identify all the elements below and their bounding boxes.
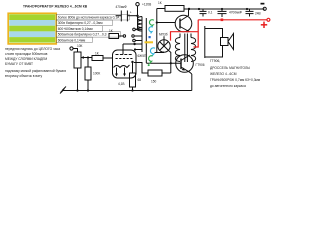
svg-text:до автогенного каркаса: до автогенного каркаса bbox=[210, 84, 246, 88]
svg-text:150: 150 bbox=[151, 80, 157, 84]
svg-text:ДРОССЕЛЬ МАГНИТОЛЫ: ДРОССЕЛЬ МАГНИТОЛЫ bbox=[210, 66, 250, 70]
svg-text:4700мкФ: 4700мкФ bbox=[229, 11, 243, 15]
svg-text:надломку мягкой рафинованной б: надломку мягкой рафинованной бумаги bbox=[5, 69, 66, 73]
svg-text:+: + bbox=[130, 11, 132, 15]
svg-text:ГРАНИ/500Р0Ж 0,7мм КЗ+0,3мм: ГРАНИ/500Р0Ж 0,7мм КЗ+0,3мм bbox=[210, 78, 261, 82]
svg-text:500витков бифилярно 0,27...0,3: 500витков бифилярно 0,27...0,3 bbox=[58, 33, 107, 37]
svg-text:ГТ906,: ГТ906, bbox=[210, 59, 220, 63]
svg-text:24В: 24В bbox=[255, 12, 261, 16]
svg-text:1К: 1К bbox=[109, 29, 113, 33]
svg-text:6Ж5П: 6Ж5П bbox=[138, 54, 147, 58]
svg-text:МЕЖДУ СЛОЯМИ КЛАДЕМ: МЕЖДУ СЛОЯМИ КЛАДЕМ bbox=[5, 57, 47, 61]
svg-text:МП3б: МП3б bbox=[159, 33, 168, 37]
svg-text:более 800в до исполнения карка: более 800в до исполнения каркаса 0,1А bbox=[58, 16, 120, 20]
svg-text:БУМАГУ ОТ 5МВТ: БУМАГУ ОТ 5МВТ bbox=[5, 62, 33, 66]
svg-text:4,1В: 4,1В bbox=[118, 82, 125, 86]
svg-text:передняя надпись до ЦЕЛОГО час: передняя надпись до ЦЕЛОГО часа bbox=[5, 47, 60, 51]
svg-text:10К: 10К bbox=[77, 44, 83, 48]
svg-text:слоев прокладки 500витков: слоев прокладки 500витков bbox=[5, 52, 48, 56]
svg-text:100К: 100К bbox=[93, 72, 100, 76]
svg-text:0,1: 0,1 bbox=[208, 11, 213, 15]
svg-text:ГТ906: ГТ906 bbox=[196, 63, 205, 67]
svg-text:ТРАНСФОРМАТОР ЖЕЛЕЗО 4...6СМ К: ТРАНСФОРМАТОР ЖЕЛЕЗО 4...6СМ КВ bbox=[23, 4, 88, 8]
svg-text:+120В: +120В bbox=[142, 3, 151, 7]
svg-text:600витков 0,14мм: 600витков 0,14мм bbox=[58, 38, 86, 42]
svg-text:ЖЕЛЕЗО 4...6СМ: ЖЕЛЕЗО 4...6СМ bbox=[210, 72, 237, 76]
svg-text:300в бифилярно 0,27...0,3мм: 300в бифилярно 0,27...0,3мм bbox=[58, 21, 104, 25]
svg-text:600+600витков 0,14мм: 600+600витков 0,14мм bbox=[58, 27, 94, 31]
svg-text:1К: 1К bbox=[158, 1, 162, 5]
svg-text:1К: 1К bbox=[95, 52, 99, 56]
svg-text:68: 68 bbox=[138, 78, 142, 82]
svg-text:470мкФ: 470мкФ bbox=[116, 5, 128, 9]
svg-text:вторичку обмоток в вату: вторичку обмоток в вату bbox=[5, 74, 42, 78]
